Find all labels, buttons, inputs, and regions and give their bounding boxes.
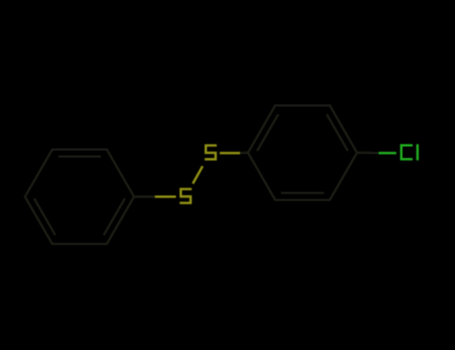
bond C-S carbon half [134, 195, 155, 197]
bond S-C sulfur half [220, 152, 241, 154]
bond C-Cl carbon half [357, 151, 379, 154]
atom label Cl : l [416, 144, 418, 160]
bond S-C carbon half [240, 106, 378, 200]
right benzene ring [248, 106, 357, 200]
atom label Cl : C [401, 145, 412, 159]
bond S-S [193, 166, 203, 183]
bond C-S sulfur half [155, 195, 176, 197]
bond C-Cl chlorine half [379, 152, 397, 154]
left benzene ring [25, 150, 155, 244]
atom label S (lower) [180, 189, 192, 203]
atom label S (upper) [205, 145, 217, 159]
